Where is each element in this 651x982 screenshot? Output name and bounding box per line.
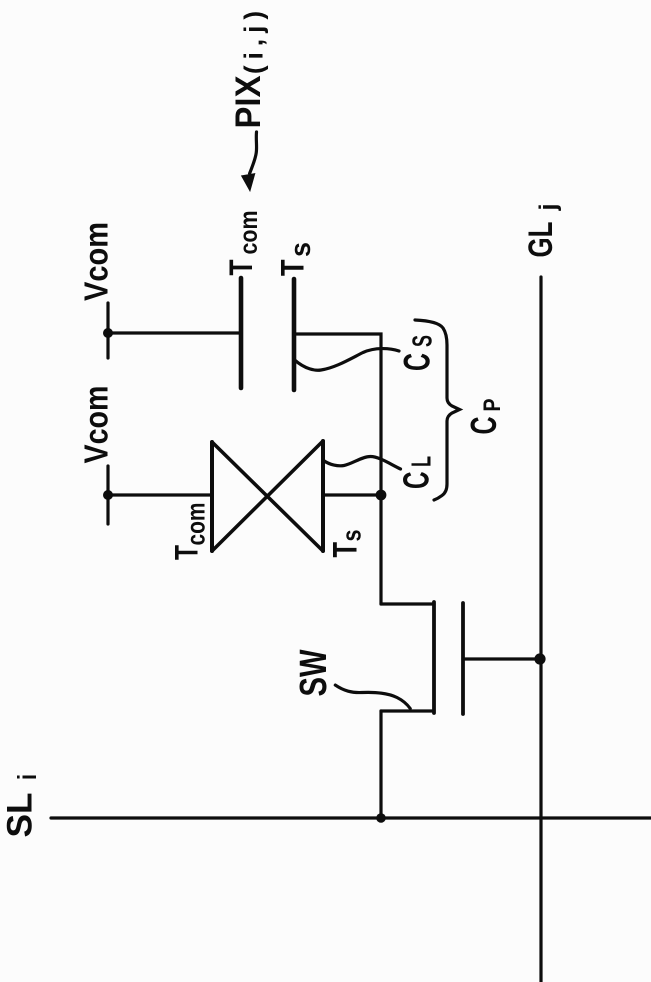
svg-text:L: L <box>406 456 437 467</box>
wire Vcom to Cs left plate <box>108 331 240 334</box>
transistor SW source stub <box>381 709 434 712</box>
svg-text:j: j <box>535 204 562 212</box>
junction dot at Vcom top <box>103 328 113 338</box>
wire SW source to SL <box>379 711 382 818</box>
svg-text:T: T <box>223 259 259 275</box>
svg-text:s: s <box>337 530 367 542</box>
wire gate line GLj <box>539 277 542 982</box>
liquid-crystal element CL right bar <box>321 441 325 551</box>
svg-text:C: C <box>396 472 437 490</box>
junction dot SW source / SL <box>376 813 386 823</box>
transistor SW drain stub <box>381 602 434 605</box>
svg-text:s: s <box>285 242 317 257</box>
arrowhead of PIX leader <box>242 174 255 191</box>
junction dot main vertical / LC branch <box>376 490 387 501</box>
svg-text:com: com <box>235 211 263 255</box>
svg-text:T: T <box>275 259 311 276</box>
brace Cp <box>415 320 460 500</box>
wire SW gate to GL <box>463 657 540 660</box>
capacitor Cs right plate (Ts electrode) <box>292 279 297 390</box>
wire Cs right plate to main vertical <box>294 334 381 495</box>
transistor SW gate bar <box>461 603 465 714</box>
svg-text:T: T <box>169 545 205 560</box>
svg-text:Vcom: Vcom <box>78 222 115 301</box>
node Vcom terminal tick (top) <box>106 303 109 358</box>
leader squiggle to SW label <box>335 685 410 708</box>
liquid-crystal element CL diagonal 2 <box>212 441 323 551</box>
leader arrow from PIX label <box>250 132 257 174</box>
capacitor Cs left plate (Tcom electrode) <box>239 278 244 388</box>
wire source line SLi <box>51 816 651 819</box>
leader squiggle to CL label <box>324 457 401 470</box>
svg-text:GL: GL <box>522 222 560 258</box>
junction dot at Vcom second <box>103 490 113 500</box>
svg-text:T: T <box>327 542 365 558</box>
svg-text:C: C <box>397 353 438 371</box>
svg-text:P: P <box>479 399 506 412</box>
svg-text:com: com <box>181 503 211 546</box>
svg-text:PIX: PIX <box>229 75 268 129</box>
transistor SW channel bar <box>432 602 436 713</box>
svg-text:SW: SW <box>293 649 335 696</box>
svg-text:S: S <box>407 335 438 347</box>
wire Vcom to LC left bar <box>108 493 212 496</box>
junction dot gate / GL <box>534 653 545 664</box>
svg-text:i: i <box>12 774 42 780</box>
svg-text:C: C <box>463 417 504 435</box>
liquid-crystal element CL left bar <box>210 442 214 551</box>
svg-text:SL: SL <box>1 793 40 838</box>
wire main vertical (pixel node) <box>379 495 382 604</box>
node Vcom terminal tick (second) <box>106 466 109 524</box>
wire LC right bar to main vertical <box>323 493 381 496</box>
svg-text:Vcom: Vcom <box>78 386 115 464</box>
liquid-crystal element CL diagonal 1 <box>212 442 323 551</box>
leader squiggle to Cs label <box>295 349 399 371</box>
